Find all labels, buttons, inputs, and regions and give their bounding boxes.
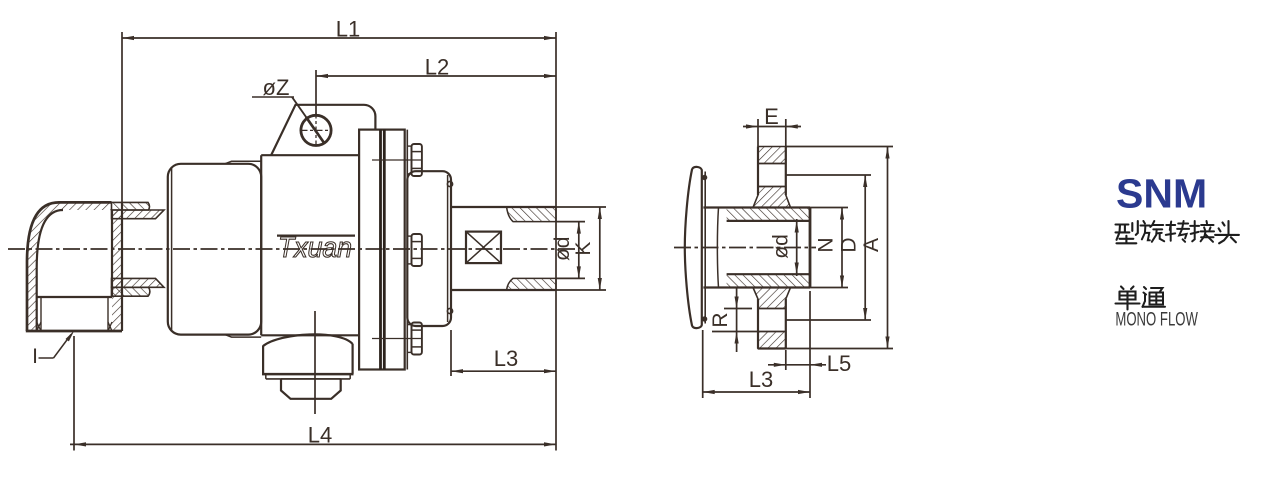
svg-text:L1: L1 bbox=[336, 17, 360, 42]
shared right extension line bbox=[555, 32, 557, 451]
bottom lug centerline bbox=[314, 311, 316, 414]
flange right face second line bbox=[406, 130, 408, 370]
middle bolt hex head bbox=[407, 234, 422, 266]
svg-text:Txuan: Txuan bbox=[278, 232, 352, 264]
svg-text:L3: L3 bbox=[749, 367, 773, 392]
dimension L5 bbox=[768, 350, 851, 376]
main cylinder body outline bbox=[261, 155, 359, 335]
shaft female thread top band bbox=[507, 207, 556, 222]
svg-text:R: R bbox=[709, 312, 732, 327]
dimension L4 bbox=[70, 336, 556, 451]
Txuan logo with overline bbox=[277, 232, 355, 264]
dimension D bbox=[786, 175, 871, 320]
svg-text:K: K bbox=[572, 242, 595, 256]
svg-text:L5: L5 bbox=[827, 351, 851, 376]
top bolt centerline bbox=[372, 159, 421, 161]
bottom nut bbox=[281, 379, 341, 399]
svg-text:SNM: SNM bbox=[1116, 171, 1207, 217]
dimension L2 bbox=[316, 55, 556, 115]
bottom bolt centerline bbox=[372, 338, 421, 340]
dimension A bbox=[786, 147, 893, 349]
mating disc profile bbox=[685, 167, 705, 328]
dimension L3 right view bbox=[703, 291, 810, 398]
elbow outer+inner wall hatched region bbox=[27, 202, 112, 331]
dimension E bbox=[743, 104, 801, 146]
dimension od on shaft bbox=[551, 222, 585, 279]
lower flange arm hatched bbox=[753, 288, 791, 349]
svg-text:ød: ød bbox=[770, 234, 793, 259]
upper flange arm hole lines bbox=[758, 147, 786, 196]
svg-text:L2: L2 bbox=[425, 55, 449, 80]
svg-text:ød: ød bbox=[551, 237, 574, 262]
flange plates outline bbox=[359, 130, 405, 370]
lower flange arm hole lines bbox=[758, 299, 786, 349]
label I with leader bbox=[32, 331, 74, 369]
body left cap rounded outline bbox=[168, 164, 261, 335]
dimension L3 left view bbox=[451, 330, 556, 376]
disc edge dots bbox=[702, 175, 707, 322]
svg-text:D: D bbox=[838, 237, 861, 252]
body cap bottom rim sliver bbox=[225, 335, 261, 338]
dimension R bbox=[709, 288, 758, 352]
flange view centerline bbox=[674, 247, 816, 249]
body cap top rim sliver bbox=[225, 161, 261, 164]
eyebolt hole circle oZ bbox=[301, 115, 331, 145]
nipple bottom thread band inner bbox=[112, 278, 165, 287]
svg-text:L4: L4 bbox=[308, 423, 332, 448]
label oZ with leader bbox=[252, 75, 325, 144]
chinese char jie 接 bbox=[1190, 221, 1214, 242]
dimension K on shaft bbox=[556, 207, 606, 290]
svg-text:L3: L3 bbox=[494, 346, 518, 371]
rotor housing outline bbox=[407, 171, 451, 326]
hub wall hatched bottom bbox=[727, 274, 810, 287]
shaft outline bbox=[451, 207, 556, 290]
hub outline bbox=[703, 208, 810, 288]
dimension od right view bbox=[770, 219, 799, 276]
chinese char tong 通 bbox=[1143, 287, 1166, 307]
nipple top thread band outer bbox=[112, 202, 150, 210]
top bolt hex head bbox=[407, 144, 422, 176]
chinese char zhuan 转 bbox=[1166, 221, 1189, 242]
dimension N bbox=[810, 208, 848, 288]
top lug outline bbox=[271, 105, 375, 156]
chinese char xing 型 bbox=[1116, 221, 1138, 243]
svg-text:I: I bbox=[32, 345, 38, 368]
svg-text:A: A bbox=[860, 238, 883, 252]
product code SNM bbox=[1116, 171, 1207, 217]
shaft female thread bottom band bbox=[507, 278, 556, 290]
chinese char xuan 旋 bbox=[1140, 221, 1164, 242]
svg-text:E: E bbox=[764, 104, 779, 129]
elbow right face bbox=[121, 202, 123, 331]
bottom lug dome bbox=[263, 334, 353, 373]
bottom bolt hex head bbox=[407, 323, 422, 355]
dimension L1 bbox=[122, 17, 556, 203]
hub wall hatched top bbox=[727, 208, 810, 221]
nipple top thread band inner bbox=[112, 210, 165, 219]
elbow outer contour bbox=[27, 202, 112, 331]
type label english MONO FLOW bbox=[1115, 310, 1198, 331]
upper flange arm hatched bbox=[753, 147, 791, 208]
flange gasket dark double line bbox=[381, 130, 385, 370]
housing face screw dots bbox=[447, 181, 452, 313]
eyebolt hole crosshair bbox=[301, 113, 332, 149]
svg-text:N: N bbox=[815, 237, 838, 252]
main horizontal centerline of assembly view bbox=[8, 248, 576, 250]
nipple bottom thread band outer bbox=[112, 287, 150, 296]
bearing box with cross bbox=[466, 232, 501, 264]
chinese char dan 单 bbox=[1116, 287, 1140, 310]
elbow right wall hatched region bbox=[112, 210, 122, 331]
elbow inner cavity right wall bbox=[111, 210, 113, 297]
chinese char tou 头 bbox=[1215, 221, 1239, 243]
bottom lug plate bbox=[262, 374, 354, 379]
svg-text:MONO FLOW: MONO FLOW bbox=[1115, 310, 1198, 331]
elbow bottom port female thread bbox=[37, 297, 112, 331]
elbow bottom face bbox=[26, 330, 122, 333]
